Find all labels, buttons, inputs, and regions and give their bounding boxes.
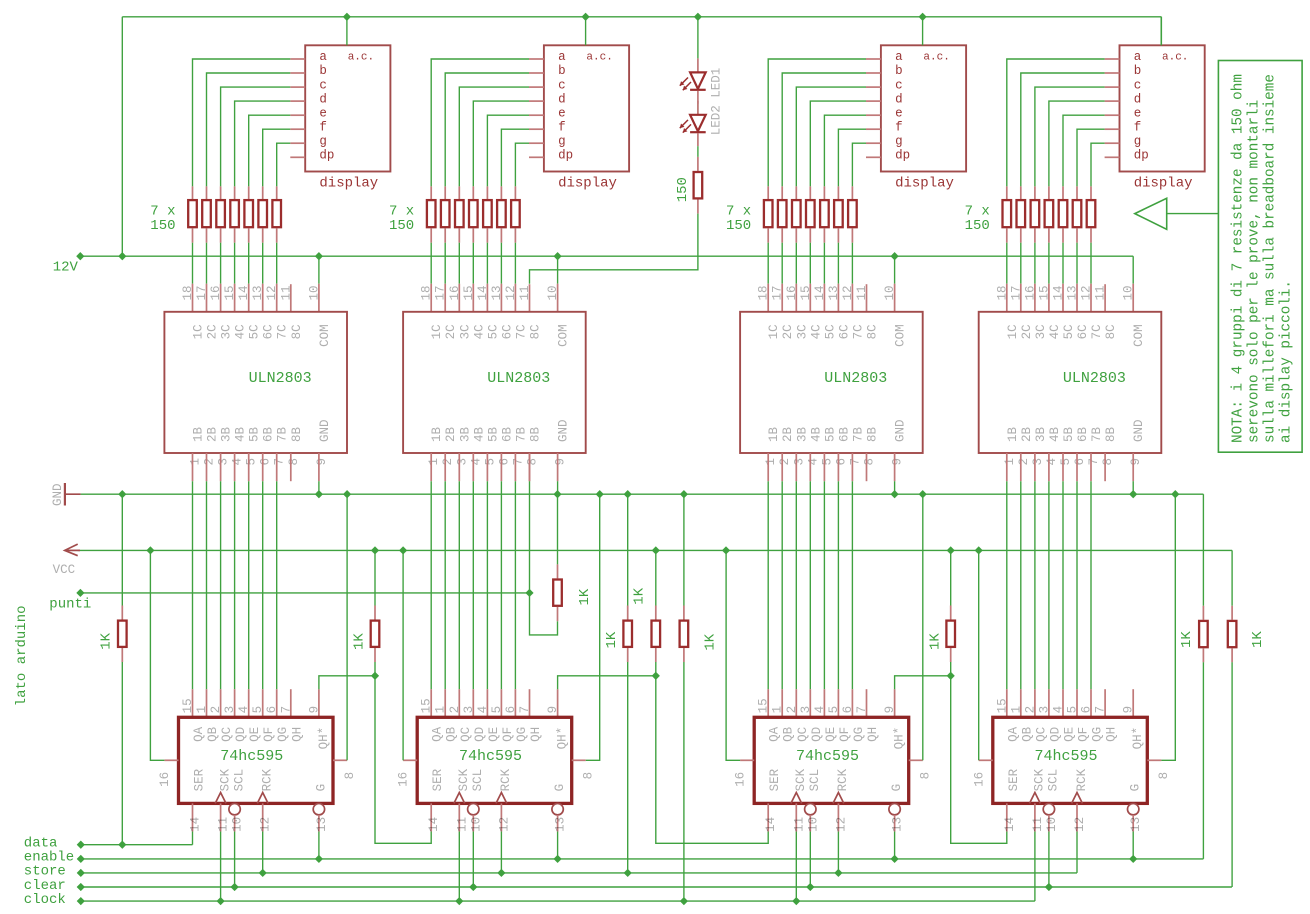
svg-text:2: 2 xyxy=(209,706,223,714)
svg-text:QD: QD xyxy=(234,727,248,742)
svg-text:9: 9 xyxy=(315,458,329,466)
svg-text:13: 13 xyxy=(891,817,905,832)
svg-text:6B: 6B xyxy=(262,426,276,442)
svg-text:d: d xyxy=(558,92,566,106)
svg-text:4: 4 xyxy=(1052,706,1066,714)
svg-text:QH: QH xyxy=(866,727,880,742)
svg-text:COM: COM xyxy=(894,324,908,347)
svg-text:17: 17 xyxy=(195,285,209,300)
svg-text:f: f xyxy=(319,120,327,134)
svg-text:10: 10 xyxy=(231,817,245,832)
svg-text:RCK: RCK xyxy=(499,768,513,791)
svg-text:1K: 1K xyxy=(577,588,593,605)
svg-text:a.c.: a.c. xyxy=(923,52,949,64)
svg-text:8B: 8B xyxy=(529,426,543,442)
svg-text:e: e xyxy=(1134,106,1142,120)
svg-text:15: 15 xyxy=(1037,285,1051,300)
svg-text:sulla millefori ma sulla bread: sulla millefori ma sulla breadboard insi… xyxy=(1263,74,1279,443)
svg-text:3B: 3B xyxy=(220,426,234,442)
svg-text:QE: QE xyxy=(487,727,501,742)
svg-text:7B: 7B xyxy=(851,426,865,442)
svg-text:6B: 6B xyxy=(837,426,851,442)
svg-text:1K: 1K xyxy=(99,632,115,649)
svg-text:16: 16 xyxy=(448,285,462,300)
svg-text:3: 3 xyxy=(1031,458,1045,466)
svg-text:13: 13 xyxy=(827,285,841,300)
svg-text:7: 7 xyxy=(518,706,532,714)
svg-text:6: 6 xyxy=(834,458,848,466)
svg-text:4: 4 xyxy=(476,706,490,714)
svg-text:13: 13 xyxy=(1066,285,1080,300)
svg-text:QH: QH xyxy=(1105,727,1119,742)
svg-text:QA: QA xyxy=(1006,726,1020,742)
svg-text:9: 9 xyxy=(883,706,897,714)
svg-text:7: 7 xyxy=(511,458,525,466)
svg-text:G: G xyxy=(890,784,904,792)
svg-text:7B: 7B xyxy=(276,426,290,442)
svg-text:QF: QF xyxy=(838,727,852,742)
svg-text:SER: SER xyxy=(431,768,445,791)
svg-text:15: 15 xyxy=(420,698,434,713)
svg-text:10: 10 xyxy=(1045,817,1059,832)
svg-text:1K: 1K xyxy=(1250,631,1266,648)
svg-text:2B: 2B xyxy=(206,426,220,442)
svg-text:7: 7 xyxy=(848,458,862,466)
svg-text:2B: 2B xyxy=(444,426,458,442)
svg-text:QG: QG xyxy=(515,727,529,742)
svg-text:QH*: QH* xyxy=(893,727,907,750)
svg-text:9: 9 xyxy=(546,706,560,714)
svg-text:lato arduino: lato arduino xyxy=(14,605,30,706)
svg-text:b: b xyxy=(895,64,903,78)
svg-text:1C: 1C xyxy=(1006,324,1020,339)
svg-text:b: b xyxy=(319,64,327,78)
svg-text:4B: 4B xyxy=(1048,426,1062,442)
svg-text:g: g xyxy=(1134,134,1142,148)
svg-text:5C: 5C xyxy=(1062,324,1076,339)
svg-text:5C: 5C xyxy=(486,324,500,339)
svg-text:3: 3 xyxy=(799,706,813,714)
svg-text:16: 16 xyxy=(972,772,986,787)
svg-text:d: d xyxy=(1134,92,1142,106)
svg-text:1: 1 xyxy=(771,706,785,714)
svg-text:6: 6 xyxy=(1073,458,1087,466)
svg-text:QE: QE xyxy=(824,727,838,742)
svg-text:6C: 6C xyxy=(262,324,276,339)
svg-text:2C: 2C xyxy=(1020,324,1034,339)
svg-text:f: f xyxy=(895,120,903,134)
svg-text:1: 1 xyxy=(764,458,778,466)
svg-text:3B: 3B xyxy=(458,426,472,442)
svg-text:2: 2 xyxy=(448,706,462,714)
svg-text:10: 10 xyxy=(806,817,820,832)
svg-text:11: 11 xyxy=(792,817,806,832)
svg-text:13: 13 xyxy=(251,285,265,300)
svg-text:SCK: SCK xyxy=(218,768,232,791)
svg-text:14: 14 xyxy=(813,285,827,300)
svg-text:15: 15 xyxy=(995,698,1009,713)
svg-text:ai display piccoli.: ai display piccoli. xyxy=(1279,280,1295,443)
svg-text:16: 16 xyxy=(397,772,411,787)
svg-text:8: 8 xyxy=(1157,772,1171,780)
svg-text:2: 2 xyxy=(441,458,455,466)
svg-text:e: e xyxy=(558,106,566,120)
svg-text:74hc595: 74hc595 xyxy=(1034,748,1097,765)
svg-text:SCK: SCK xyxy=(1033,768,1047,791)
svg-text:SCK: SCK xyxy=(794,768,808,791)
svg-text:12: 12 xyxy=(1080,285,1094,300)
svg-text:7C: 7C xyxy=(851,324,865,339)
svg-text:6C: 6C xyxy=(837,324,851,339)
svg-text:4B: 4B xyxy=(809,426,823,442)
svg-text:16: 16 xyxy=(209,285,223,300)
svg-text:4C: 4C xyxy=(809,324,823,339)
svg-text:14: 14 xyxy=(237,285,251,300)
svg-text:QE: QE xyxy=(1063,727,1077,742)
svg-text:6: 6 xyxy=(265,706,279,714)
svg-text:ULN2803: ULN2803 xyxy=(487,370,550,387)
svg-text:c: c xyxy=(319,78,327,92)
svg-text:4C: 4C xyxy=(234,324,248,339)
svg-text:QB: QB xyxy=(1020,726,1034,742)
svg-text:GND: GND xyxy=(318,419,332,442)
svg-text:1B: 1B xyxy=(430,426,444,442)
svg-text:5: 5 xyxy=(483,458,497,466)
svg-text:8C: 8C xyxy=(529,324,543,339)
svg-text:g: g xyxy=(558,134,566,148)
svg-text:2C: 2C xyxy=(781,324,795,339)
svg-text:2: 2 xyxy=(785,706,799,714)
svg-text:e: e xyxy=(319,106,327,120)
svg-text:4B: 4B xyxy=(234,426,248,442)
svg-text:g: g xyxy=(319,134,327,148)
svg-text:4C: 4C xyxy=(472,324,486,339)
svg-text:QC: QC xyxy=(220,727,234,742)
svg-text:1K: 1K xyxy=(927,633,943,650)
svg-text:COM: COM xyxy=(1132,324,1146,347)
svg-text:QD: QD xyxy=(473,727,487,742)
svg-text:12: 12 xyxy=(834,817,848,832)
svg-text:6: 6 xyxy=(841,706,855,714)
svg-text:6C: 6C xyxy=(500,324,514,339)
svg-text:4B: 4B xyxy=(472,426,486,442)
svg-text:74hc595: 74hc595 xyxy=(459,748,522,765)
svg-text:14: 14 xyxy=(427,817,441,832)
svg-text:12: 12 xyxy=(1073,817,1087,832)
svg-text:3C: 3C xyxy=(220,324,234,339)
svg-text:QD: QD xyxy=(1048,727,1062,742)
svg-text:12: 12 xyxy=(497,817,511,832)
svg-text:a.c.: a.c. xyxy=(348,52,374,64)
svg-text:ULN2803: ULN2803 xyxy=(824,370,887,387)
svg-text:15: 15 xyxy=(462,285,476,300)
svg-text:SCL: SCL xyxy=(808,769,822,792)
svg-text:12: 12 xyxy=(841,285,855,300)
svg-text:7B: 7B xyxy=(1090,426,1104,442)
svg-text:4: 4 xyxy=(469,458,483,466)
svg-text:6: 6 xyxy=(259,458,273,466)
svg-text:1: 1 xyxy=(434,706,448,714)
svg-text:7: 7 xyxy=(279,706,293,714)
svg-text:ULN2803: ULN2803 xyxy=(249,370,312,387)
svg-text:7: 7 xyxy=(1094,706,1108,714)
svg-text:18: 18 xyxy=(757,285,771,300)
svg-text:4C: 4C xyxy=(1048,324,1062,339)
svg-text:14: 14 xyxy=(1052,285,1066,300)
svg-text:8: 8 xyxy=(526,458,540,466)
svg-text:QB: QB xyxy=(445,726,459,742)
svg-text:6C: 6C xyxy=(1076,324,1090,339)
svg-text:QF: QF xyxy=(1077,727,1091,742)
svg-text:5: 5 xyxy=(251,706,265,714)
svg-text:f: f xyxy=(558,120,566,134)
svg-text:dp: dp xyxy=(558,149,573,163)
svg-text:QH: QH xyxy=(529,727,543,742)
svg-text:3: 3 xyxy=(455,458,469,466)
svg-text:a: a xyxy=(895,50,903,64)
svg-text:7C: 7C xyxy=(276,324,290,339)
svg-text:7: 7 xyxy=(1087,458,1101,466)
svg-text:15: 15 xyxy=(223,285,237,300)
svg-text:14: 14 xyxy=(764,817,778,832)
svg-text:dp: dp xyxy=(319,149,334,163)
svg-text:8: 8 xyxy=(919,772,933,780)
svg-text:c: c xyxy=(1134,78,1142,92)
svg-text:QG: QG xyxy=(1091,727,1105,742)
svg-text:2: 2 xyxy=(778,458,792,466)
svg-text:a.c.: a.c. xyxy=(586,52,612,64)
svg-text:5B: 5B xyxy=(823,426,837,442)
svg-text:7B: 7B xyxy=(514,426,528,442)
svg-text:display: display xyxy=(558,176,617,192)
svg-text:GND: GND xyxy=(557,419,571,442)
svg-text:16: 16 xyxy=(158,772,172,787)
svg-text:6: 6 xyxy=(504,706,518,714)
svg-text:display: display xyxy=(319,176,378,192)
svg-text:18: 18 xyxy=(181,285,195,300)
svg-text:RCK: RCK xyxy=(261,768,275,791)
svg-text:9: 9 xyxy=(1129,458,1143,466)
svg-text:10: 10 xyxy=(469,817,483,832)
svg-text:SCL: SCL xyxy=(471,769,485,792)
svg-text:c: c xyxy=(558,78,566,92)
svg-text:8: 8 xyxy=(343,772,357,780)
svg-text:5B: 5B xyxy=(248,426,262,442)
svg-text:1: 1 xyxy=(189,458,203,466)
svg-text:15: 15 xyxy=(181,698,195,713)
svg-text:15: 15 xyxy=(757,698,771,713)
svg-text:QH*: QH* xyxy=(1131,727,1145,750)
svg-text:dp: dp xyxy=(1134,149,1149,163)
svg-text:1: 1 xyxy=(1009,706,1023,714)
svg-text:NOTA: i 4 gruppi di 7 resisten: NOTA: i 4 gruppi di 7 resistenze da 150 … xyxy=(1231,74,1247,443)
svg-text:RCK: RCK xyxy=(1075,768,1089,791)
svg-text:1K: 1K xyxy=(1179,631,1195,648)
svg-text:VCC: VCC xyxy=(53,563,76,577)
svg-text:3: 3 xyxy=(462,706,476,714)
svg-text:b: b xyxy=(558,64,566,78)
svg-text:16: 16 xyxy=(1023,285,1037,300)
svg-text:COM: COM xyxy=(557,324,571,347)
svg-text:QG: QG xyxy=(852,727,866,742)
svg-text:5B: 5B xyxy=(1062,426,1076,442)
svg-text:1B: 1B xyxy=(1006,426,1020,442)
svg-text:2: 2 xyxy=(1023,706,1037,714)
svg-text:5: 5 xyxy=(1066,706,1080,714)
svg-text:b: b xyxy=(1134,64,1142,78)
svg-text:1K: 1K xyxy=(604,631,620,648)
svg-text:7: 7 xyxy=(855,706,869,714)
svg-text:150: 150 xyxy=(389,218,414,234)
svg-text:11: 11 xyxy=(455,817,469,832)
svg-text:SCL: SCL xyxy=(232,769,246,792)
svg-text:g: g xyxy=(895,134,903,148)
svg-text:13: 13 xyxy=(554,817,568,832)
svg-text:QC: QC xyxy=(459,727,473,742)
svg-text:3C: 3C xyxy=(1034,324,1048,339)
svg-text:SCL: SCL xyxy=(1047,769,1061,792)
svg-text:1: 1 xyxy=(427,458,441,466)
svg-text:5: 5 xyxy=(490,706,504,714)
svg-text:QH: QH xyxy=(290,727,304,742)
svg-text:3: 3 xyxy=(1037,706,1051,714)
svg-text:1B: 1B xyxy=(767,426,781,442)
svg-text:2B: 2B xyxy=(1020,426,1034,442)
svg-text:6: 6 xyxy=(497,458,511,466)
svg-text:6B: 6B xyxy=(500,426,514,442)
svg-text:74hc595: 74hc595 xyxy=(220,748,283,765)
svg-text:SER: SER xyxy=(768,768,782,791)
svg-text:1: 1 xyxy=(195,706,209,714)
svg-text:a: a xyxy=(558,50,566,64)
svg-text:14: 14 xyxy=(1003,817,1017,832)
svg-text:13: 13 xyxy=(1129,817,1143,832)
svg-text:8B: 8B xyxy=(866,426,880,442)
svg-text:QB: QB xyxy=(782,726,796,742)
svg-text:3: 3 xyxy=(792,458,806,466)
svg-text:5: 5 xyxy=(1059,458,1073,466)
svg-text:150: 150 xyxy=(150,218,175,234)
svg-text:QH*: QH* xyxy=(317,727,331,750)
svg-text:QE: QE xyxy=(248,727,262,742)
svg-text:7C: 7C xyxy=(1090,324,1104,339)
svg-text:17: 17 xyxy=(1009,285,1023,300)
svg-text:150: 150 xyxy=(965,218,990,234)
svg-text:8B: 8B xyxy=(290,426,304,442)
svg-text:8B: 8B xyxy=(1104,426,1118,442)
svg-text:17: 17 xyxy=(434,285,448,300)
svg-text:8C: 8C xyxy=(290,324,304,339)
svg-text:2C: 2C xyxy=(206,324,220,339)
svg-text:7: 7 xyxy=(273,458,287,466)
svg-text:display: display xyxy=(895,176,954,192)
svg-text:1K: 1K xyxy=(632,587,648,604)
svg-text:a: a xyxy=(1134,50,1142,64)
svg-text:SER: SER xyxy=(193,768,207,791)
svg-text:QB: QB xyxy=(206,726,220,742)
svg-text:QA: QA xyxy=(192,726,206,742)
svg-text:12: 12 xyxy=(265,285,279,300)
svg-text:17: 17 xyxy=(771,285,785,300)
svg-text:13: 13 xyxy=(315,817,329,832)
svg-text:G: G xyxy=(314,784,328,792)
svg-text:3B: 3B xyxy=(1034,426,1048,442)
svg-text:QH*: QH* xyxy=(556,727,570,750)
svg-text:3C: 3C xyxy=(458,324,472,339)
svg-text:QA: QA xyxy=(431,726,445,742)
svg-text:LED2 LED1: LED2 LED1 xyxy=(710,68,724,136)
svg-text:1C: 1C xyxy=(767,324,781,339)
svg-text:RCK: RCK xyxy=(836,768,850,791)
svg-text:18: 18 xyxy=(420,285,434,300)
svg-text:1K: 1K xyxy=(352,633,368,650)
svg-text:QC: QC xyxy=(1034,727,1048,742)
svg-text:8C: 8C xyxy=(866,324,880,339)
svg-text:2: 2 xyxy=(1017,458,1031,466)
svg-text:5B: 5B xyxy=(486,426,500,442)
svg-text:display: display xyxy=(1134,176,1193,192)
svg-text:4: 4 xyxy=(813,706,827,714)
svg-text:18: 18 xyxy=(995,285,1009,300)
svg-text:QF: QF xyxy=(501,727,515,742)
svg-text:14: 14 xyxy=(189,817,203,832)
svg-text:GND: GND xyxy=(51,483,65,506)
svg-text:9: 9 xyxy=(554,458,568,466)
svg-text:8: 8 xyxy=(287,458,301,466)
svg-text:clock: clock xyxy=(24,892,66,908)
svg-text:9: 9 xyxy=(891,458,905,466)
svg-text:13: 13 xyxy=(490,285,504,300)
svg-text:ULN2803: ULN2803 xyxy=(1063,370,1126,387)
svg-text:GND: GND xyxy=(894,419,908,442)
svg-text:1B: 1B xyxy=(192,426,206,442)
svg-text:dp: dp xyxy=(895,149,910,163)
svg-text:6: 6 xyxy=(1080,706,1094,714)
svg-text:QC: QC xyxy=(796,727,810,742)
svg-text:11: 11 xyxy=(217,817,231,832)
svg-text:8: 8 xyxy=(582,772,596,780)
svg-text:16: 16 xyxy=(785,285,799,300)
svg-text:serevono solo per le prove, no: serevono solo per le prove, non montarli xyxy=(1247,100,1263,443)
svg-text:3: 3 xyxy=(223,706,237,714)
svg-text:4: 4 xyxy=(1045,458,1059,466)
svg-text:a.c.: a.c. xyxy=(1162,52,1188,64)
svg-text:SCK: SCK xyxy=(457,768,471,791)
svg-text:QA: QA xyxy=(768,726,782,742)
svg-text:a: a xyxy=(319,50,327,64)
svg-text:punti: punti xyxy=(49,597,91,613)
svg-text:SER: SER xyxy=(1007,768,1021,791)
svg-text:1C: 1C xyxy=(430,324,444,339)
svg-text:G: G xyxy=(553,784,567,792)
svg-text:1C: 1C xyxy=(192,324,206,339)
svg-text:4: 4 xyxy=(237,706,251,714)
svg-text:2C: 2C xyxy=(444,324,458,339)
svg-text:4: 4 xyxy=(231,458,245,466)
svg-text:8C: 8C xyxy=(1104,324,1118,339)
svg-text:9: 9 xyxy=(1122,706,1136,714)
svg-text:1K: 1K xyxy=(702,633,718,650)
svg-text:5: 5 xyxy=(245,458,259,466)
svg-text:11: 11 xyxy=(1031,817,1045,832)
svg-text:QG: QG xyxy=(276,727,290,742)
svg-text:7C: 7C xyxy=(514,324,528,339)
svg-text:4: 4 xyxy=(806,458,820,466)
svg-text:6B: 6B xyxy=(1076,426,1090,442)
svg-text:8: 8 xyxy=(1101,458,1115,466)
svg-text:16: 16 xyxy=(734,772,748,787)
svg-text:150: 150 xyxy=(675,177,691,202)
